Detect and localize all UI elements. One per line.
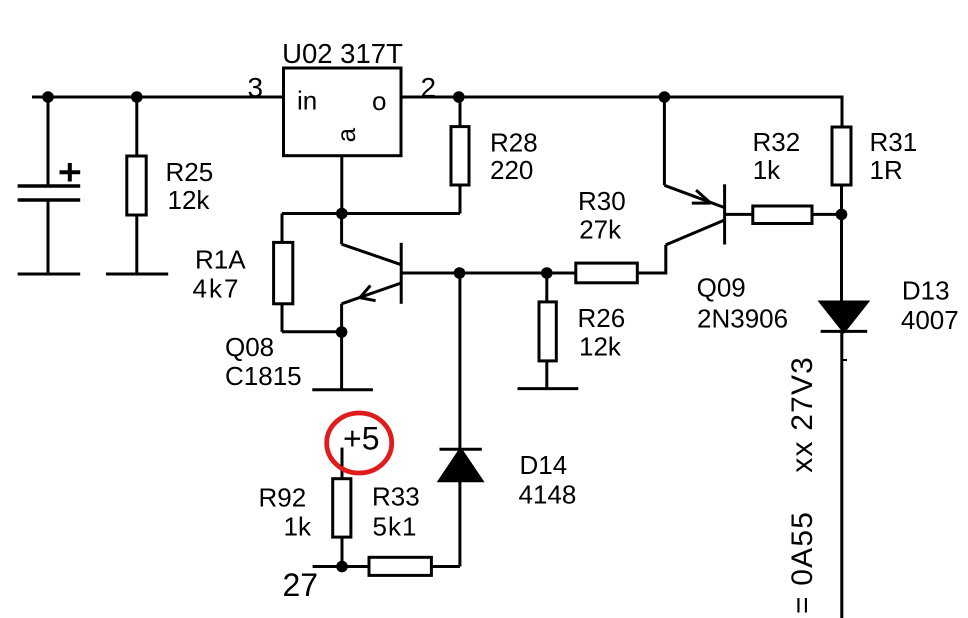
node C (R28 / rail) [453,91,465,103]
wire D14 riser [458,273,461,449]
svg-text:27: 27 [283,567,319,603]
svg-text:R25: R25 [166,157,214,187]
ground (Q08 emitter) [312,388,373,391]
node D (Q09 emitter / rail) [659,91,671,103]
svg-text:D14: D14 [520,450,568,480]
resistor R26 [539,273,556,389]
wire base rail [401,272,576,275]
node I (Q08 emitter / R1A) [336,326,348,338]
svg-text:220: 220 [490,155,533,185]
svg-text:D13: D13 [902,275,950,305]
svg-text:Q08: Q08 [225,332,274,362]
svg-text:o: o [372,86,386,116]
node H (R31 / R32 / D13) [836,209,848,221]
resistor R31 [832,127,851,214]
svg-text:2: 2 [421,72,437,103]
wire R1A drop [281,214,284,243]
svg-text:U02 317T: U02 317T [282,38,403,69]
svg-text:27k: 27k [579,214,622,244]
svg-text:R26: R26 [578,303,626,333]
node A (cap / rail) [42,91,54,103]
node G (base rail / R26) [541,267,553,279]
resistor R1A [274,242,342,331]
svg-text:12k: 12k [579,331,622,361]
svg-text:R32: R32 [753,127,801,157]
svg-text:R31: R31 [870,127,918,157]
node F (base rail / D14) [454,267,466,279]
wire U02 adj pin down [340,156,343,214]
power node +5 (red circle) [327,413,392,473]
resistor R92 [333,448,351,567]
svg-text:= 0A55 xx 27V3: = 0A55 xx 27V3 [786,356,819,614]
transistor Q09 (PNP 2N3906) [664,97,724,245]
svg-text:R28: R28 [490,127,538,157]
svg-text:in: in [297,86,317,116]
ground (R25) [106,273,168,276]
svg-text:C1815: C1815 [225,361,302,391]
node B (R25 / rail) [131,91,143,103]
svg-text:R33: R33 [372,482,420,512]
svg-text:+5: +5 [343,421,379,457]
wire Q09 base to R32 [725,213,753,216]
svg-text:1R: 1R [870,155,903,185]
svg-text:12k: 12k [168,185,211,215]
svg-text:3: 3 [248,72,264,103]
svg-text:5k1: 5k1 [373,511,418,541]
transistor Q08 (NPN C1815) [342,214,402,390]
svg-text:1k: 1k [753,155,781,185]
svg-text:R30: R30 [578,186,626,216]
svg-text:4007: 4007 [901,305,959,335]
capacitor C1 (electrolytic) [18,97,81,274]
svg-text:1k: 1k [284,512,312,542]
wire adj horizontal [282,212,460,215]
node J (R92 / R33 / net 27) [336,561,348,573]
wire +5 to R92 [341,448,344,466]
wire top rail right [402,97,843,127]
resistor R28 [451,97,469,214]
wire bottom net 27 [313,565,369,568]
resistor R30 (horizontal) [576,245,666,283]
ground (R26) [518,387,579,390]
wire top rail left [32,96,282,99]
resistor R32 (horizontal) [753,206,842,224]
node E (adj net) [336,208,348,220]
ground (capacitor) [18,273,81,276]
diode D13 (1N4007) [821,214,868,618]
diode D14 (1N4148) [440,449,482,566]
resistor R25 [127,97,146,274]
svg-text:Q09: Q09 [697,272,746,302]
resistor R33 (horizontal) [369,557,460,575]
regulator U02 317T body [284,68,402,156]
svg-text:2N3906: 2N3906 [697,303,788,333]
svg-text:4k7: 4k7 [193,274,241,304]
svg-text:4148: 4148 [519,480,577,510]
svg-text:R1A: R1A [195,245,246,275]
svg-text:R92: R92 [259,483,307,513]
svg-text:a: a [331,127,361,142]
